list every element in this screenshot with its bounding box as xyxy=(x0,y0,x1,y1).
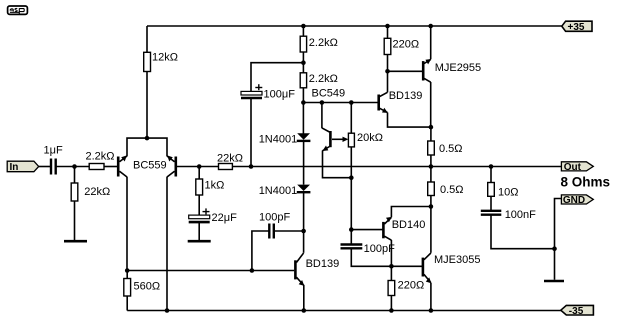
resistor 0.5 upper xyxy=(428,141,463,155)
resistor 220 top xyxy=(384,38,419,54)
svg-text:MJE2955: MJE2955 xyxy=(435,62,481,74)
svg-text:+35: +35 xyxy=(568,22,585,33)
wire diode chain lower xyxy=(303,193,305,253)
In tag xyxy=(7,161,39,173)
wire 560 column xyxy=(126,271,128,311)
transistor BC549 vbe multiplier xyxy=(312,88,346,152)
wire MJE2955 base xyxy=(388,70,423,72)
resistor 2.2k input xyxy=(86,151,115,170)
svg-text:1N4001: 1N4001 xyxy=(259,185,298,197)
wire BD139 emitter down xyxy=(388,113,431,128)
wire VAS emitter down xyxy=(303,285,305,311)
svg-text:20kΩ: 20kΩ xyxy=(357,132,383,144)
diode 1N4001 upper xyxy=(259,133,311,145)
wire BD140 emitter xyxy=(391,207,431,218)
transistor BD140 xyxy=(383,217,425,240)
svg-text:100μF: 100μF xyxy=(264,89,296,101)
svg-text:GND: GND xyxy=(563,195,585,206)
svg-text:100pF: 100pF xyxy=(364,243,395,255)
wire 1k column xyxy=(198,167,200,216)
transistor BC559 left xyxy=(118,155,127,177)
svg-text:22μF: 22μF xyxy=(212,212,238,224)
wire pot top xyxy=(350,103,352,134)
transistor BD139 vas xyxy=(295,253,339,286)
wire 100pF left to collector xyxy=(275,230,304,232)
wire MJE3055 emitter down xyxy=(430,283,432,311)
svg-text:BD139: BD139 xyxy=(306,258,340,270)
svg-text:22kΩ: 22kΩ xyxy=(84,186,110,198)
svg-text:BC559: BC559 xyxy=(133,159,167,171)
svg-text:0.5Ω: 0.5Ω xyxy=(439,143,463,155)
wire diode chain middle xyxy=(303,142,305,185)
svg-text:BD139: BD139 xyxy=(389,90,423,102)
resistor 0.5 lower xyxy=(428,182,464,196)
svg-text:2.2kΩ: 2.2kΩ xyxy=(309,73,338,85)
svg-text:Out: Out xyxy=(564,162,582,173)
wire bias line xyxy=(303,102,377,104)
svg-text:8 Ohms: 8 Ohms xyxy=(561,175,611,190)
wire 220 bottom column xyxy=(390,266,392,310)
potentiometer 20k xyxy=(332,132,383,147)
capacitor 100pF right xyxy=(341,243,396,255)
+35 tag xyxy=(562,21,592,33)
svg-text:560Ω: 560Ω xyxy=(134,281,161,293)
-35 tag xyxy=(561,305,594,317)
wire MJE3055 base xyxy=(391,265,422,267)
wire BD140 base xyxy=(351,229,382,231)
ESP logo xyxy=(8,6,28,14)
diode 1N4001 lower xyxy=(259,185,311,197)
wire 220 top column xyxy=(387,26,389,71)
resistor 1k xyxy=(196,179,225,195)
svg-text:220Ω: 220Ω xyxy=(393,39,420,51)
svg-text:100pF: 100pF xyxy=(259,212,290,224)
svg-text:12kΩ: 12kΩ xyxy=(152,52,178,64)
ground 22uF xyxy=(188,240,211,243)
svg-text:BD140: BD140 xyxy=(392,219,426,231)
resistor 560 xyxy=(124,279,160,297)
wire BC559 left collector xyxy=(126,177,128,271)
wire cap to 2.2k xyxy=(57,166,90,168)
wire 22uF to ground xyxy=(198,223,200,241)
wire pot bottom column xyxy=(350,147,352,244)
resistor 2.2k lower divider xyxy=(300,73,338,88)
Out tag xyxy=(561,162,593,173)
wire 0.5 bottom column xyxy=(430,167,432,207)
wire BD139 collector up xyxy=(387,71,389,92)
svg-text:100nF: 100nF xyxy=(505,209,536,221)
svg-text:1N4001: 1N4001 xyxy=(259,133,298,145)
wire MJE2955 emitter up xyxy=(430,26,432,59)
wire MJE3055 collector xyxy=(430,207,432,253)
wire input to cap xyxy=(39,166,50,168)
wire BC559 right collector xyxy=(166,177,168,311)
svg-text:MJE3055: MJE3055 xyxy=(434,254,480,266)
svg-text:2.2kΩ: 2.2kΩ xyxy=(86,151,115,163)
wire BC549 emitter down xyxy=(323,151,352,178)
capacitor 100nF xyxy=(481,209,536,221)
capacitor 100pF left xyxy=(259,212,290,239)
wire -35 bottom rail xyxy=(127,310,561,312)
wire 100pF right bottom xyxy=(351,250,391,267)
wire +35 top rail xyxy=(147,25,562,27)
wire GND tag xyxy=(555,199,562,280)
wire 22k input down xyxy=(74,167,76,242)
transistor BD139 driver xyxy=(379,90,423,113)
wire VAS base xyxy=(127,270,294,272)
svg-text:BC549: BC549 xyxy=(312,88,346,100)
svg-text:2.2kΩ: 2.2kΩ xyxy=(309,37,338,49)
resistor 2.2k upper divider xyxy=(300,36,338,52)
wire zobel column xyxy=(490,167,492,211)
svg-text:1kΩ: 1kΩ xyxy=(205,180,225,192)
svg-text:10Ω: 10Ω xyxy=(498,187,518,199)
ground right xyxy=(544,280,564,283)
transistor MJE3055 xyxy=(423,253,481,283)
wire BC549 collector xyxy=(321,103,323,129)
wire feedback base xyxy=(177,166,219,168)
wire 0.5 top column xyxy=(430,127,432,166)
resistor 22k input xyxy=(71,183,110,201)
capacitor 22uF xyxy=(189,208,237,224)
svg-text:1μF: 1μF xyxy=(44,145,63,157)
resistor 12k xyxy=(144,52,178,72)
ground input xyxy=(64,240,87,243)
wire BC559 emitter bar xyxy=(127,138,167,156)
GND tag xyxy=(561,195,593,206)
transistor BC559 right xyxy=(133,155,176,177)
wire 100pF left drop xyxy=(252,231,269,271)
wire 100uF bottom xyxy=(250,99,252,167)
resistor 22k feedback xyxy=(217,153,243,170)
wire 100uF divider tap xyxy=(251,63,303,92)
resistor 220 bottom xyxy=(388,280,424,296)
resistor 10 xyxy=(488,183,519,199)
wire MJE2955 collector down xyxy=(430,82,432,127)
svg-text:22kΩ: 22kΩ xyxy=(217,153,243,165)
wire BD140 collector down xyxy=(390,240,392,266)
wire 2.2k to base xyxy=(104,166,117,168)
wire divider column xyxy=(302,26,304,134)
svg-text:-35: -35 xyxy=(569,306,584,317)
capacitor 100uF xyxy=(241,84,295,100)
capacitor 1uF xyxy=(44,145,63,175)
svg-text:0.5Ω: 0.5Ω xyxy=(440,184,464,196)
wire 12k column top xyxy=(146,26,148,138)
svg-text:220Ω: 220Ω xyxy=(398,280,425,292)
transistor MJE2955 xyxy=(423,59,481,82)
svg-text:In: In xyxy=(10,162,19,173)
wire output rail xyxy=(232,166,561,168)
wire 100nF bottom xyxy=(491,216,555,249)
